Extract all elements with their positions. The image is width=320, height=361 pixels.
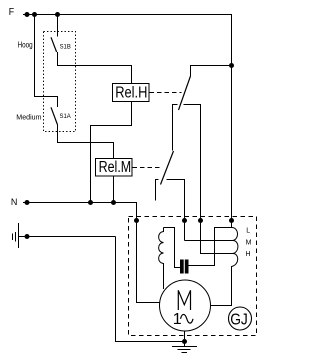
svg-text:L: L xyxy=(246,228,250,235)
contact Rel.H throws: NC to Rel.M common, NO down to terminal H xyxy=(173,105,201,221)
motor circle M 1~ xyxy=(160,280,211,331)
svg-text:GJ: GJ xyxy=(230,312,248,329)
wire S1B bottom lead to Rel.H coil xyxy=(58,52,132,84)
relay coil Rel.M xyxy=(96,159,133,177)
node earth terminal dot xyxy=(25,234,30,239)
relay coil Rel.H xyxy=(113,84,150,102)
wire H-tap lead into tapped winding xyxy=(201,221,233,254)
node motor terminal dot (N) xyxy=(134,218,139,223)
wire Rel.H coil return to N xyxy=(91,102,132,203)
svg-text:N: N xyxy=(11,196,18,207)
wire S1A bottom lead to Rel.M coil xyxy=(58,125,114,159)
wire capacitor left plate to aux winding top xyxy=(164,228,181,268)
dotted selector switch box S1 xyxy=(44,32,76,132)
dashed link Rel.H coil to contact xyxy=(150,92,182,94)
dashed motor unit enclosure box xyxy=(129,217,257,336)
svg-text:M: M xyxy=(246,239,252,246)
node Rel.H return junction xyxy=(88,200,93,205)
contact Rel.M throws: NC open stub, NO down to terminal M xyxy=(156,180,185,241)
node motor terminal dot (M tap) xyxy=(182,218,187,223)
inductor tapped speed winding L/M/H xyxy=(211,227,238,305)
motor symbol letter M xyxy=(178,290,190,310)
node F terminal dot xyxy=(25,12,30,17)
ground earth symbol at left xyxy=(13,223,25,248)
node motor terminal dot (H tap) xyxy=(198,218,203,223)
ground earth symbol at bottom xyxy=(172,342,197,353)
wire L node link to capacitor right plate xyxy=(189,228,232,266)
svg-text:H: H xyxy=(246,251,251,258)
wire M-tap lead into tapped winding xyxy=(185,240,233,242)
svg-text:Rel.M: Rel.M xyxy=(99,159,132,176)
svg-text:Hoog: Hoog xyxy=(18,40,33,49)
svg-text:Medium: Medium xyxy=(16,113,41,122)
svg-text:S1B: S1B xyxy=(60,43,72,50)
svg-text:Rel.H: Rel.H xyxy=(115,85,147,102)
wire from F to S1A (Medium branch) xyxy=(35,15,58,108)
node junction F drop to Rel.H contact xyxy=(229,63,234,68)
node junction dot on F line feeding S1B xyxy=(55,12,60,17)
contact Rel.H arm xyxy=(179,76,191,110)
svg-text:1: 1 xyxy=(173,311,182,328)
wire Rel.M coil return to N xyxy=(113,176,115,203)
node N terminal dot xyxy=(25,200,30,205)
wire motor bottom to frame ground xyxy=(184,331,186,342)
switch S1A arm xyxy=(51,107,57,124)
inductor auxiliary winding xyxy=(159,228,164,290)
node Rel.M return junction xyxy=(111,200,116,205)
contact Rel.M arm xyxy=(161,151,174,185)
wire F line from terminal to top-right corner and down to motor terminal L xyxy=(23,15,232,228)
switch S1B arm xyxy=(51,37,57,52)
svg-text:F: F xyxy=(9,7,14,18)
circle GJ badge xyxy=(229,307,252,330)
wire N line into motor box terminal xyxy=(23,203,160,303)
dashed link Rel.M coil to contact xyxy=(133,167,161,169)
capacitor plates xyxy=(180,260,184,274)
switch S1B top lead xyxy=(57,15,59,37)
node motor terminal dot (L tap) xyxy=(229,218,234,223)
wire Rel.H contact common lead xyxy=(191,66,232,77)
wire earth line to motor frame ground xyxy=(29,237,185,342)
node frame ground dot xyxy=(182,339,187,344)
svg-text:S1A: S1A xyxy=(60,113,72,120)
node junction dot on F line feeding selector xyxy=(32,12,37,17)
